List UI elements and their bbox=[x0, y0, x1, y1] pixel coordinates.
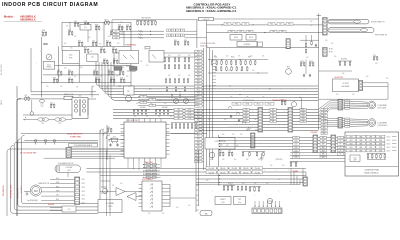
option box bbox=[333, 79, 359, 92]
wire transformer secondary right bbox=[87, 99, 89, 115]
svg-text:10K: 10K bbox=[188, 205, 190, 207]
svg-text:P32: P32 bbox=[197, 152, 200, 154]
wire vertical x58 bbox=[57, 46, 59, 82]
svg-text:CN-LED: CN-LED bbox=[208, 168, 215, 170]
resistor cluster under bundle bbox=[290, 163, 291, 166]
svg-text:NOISE DISPLAY PC: NOISE DISPLAY PC bbox=[67, 133, 83, 136]
svg-text:R95-R98: R95-R98 bbox=[162, 107, 168, 109]
svg-text:R04: R04 bbox=[118, 25, 121, 27]
svg-text:10K: 10K bbox=[74, 76, 76, 78]
svg-text:1/2W: 1/2W bbox=[42, 36, 46, 38]
svg-text:0.1μ: 0.1μ bbox=[238, 202, 241, 204]
svg-text:Z01: Z01 bbox=[74, 21, 77, 23]
serial driver triangle 2 bbox=[127, 193, 136, 201]
center resistor row upper bbox=[211, 61, 213, 64]
svg-text:+12V OUT: +12V OUT bbox=[117, 28, 124, 30]
wire y156 lower-left bbox=[44, 157, 115, 159]
row label boxes left bbox=[113, 30, 120, 32]
circle component below sub box bbox=[209, 152, 215, 158]
left bundle horizontal runs bbox=[10, 148, 146, 150]
svg-text:C: C bbox=[268, 89, 269, 91]
center spine vertical 4 bbox=[212, 50, 214, 160]
resistor pairs right of sub box bbox=[242, 153, 243, 156]
svg-text:IN2: IN2 bbox=[177, 112, 179, 114]
motor2 fan-in wires bbox=[343, 119, 368, 120]
svg-text:C: C bbox=[288, 170, 289, 172]
svg-text:P15: P15 bbox=[197, 96, 200, 98]
display bundle rows bbox=[219, 137, 345, 139]
svg-text:10K: 10K bbox=[270, 119, 272, 121]
svg-text:P-TH: P-TH bbox=[329, 52, 333, 54]
transistor circle bottom left bbox=[103, 189, 108, 194]
relay coil circle pre-band bbox=[291, 102, 296, 107]
SMPS enclosure bottom line 1 bbox=[31, 91, 96, 93]
svg-text:C53: C53 bbox=[244, 24, 247, 26]
svg-text:10K: 10K bbox=[214, 56, 216, 58]
svg-text:10K: 10K bbox=[306, 57, 308, 59]
svg-text:WHT: WHT bbox=[245, 109, 248, 111]
micom bottom pins bbox=[127, 158, 129, 162]
svg-text:C: C bbox=[116, 57, 117, 59]
micom left pins bbox=[121, 124, 125, 126]
svg-text:C11: C11 bbox=[91, 57, 94, 59]
junction dots on feeds bbox=[221, 24, 222, 25]
secondary output wire 4 bbox=[35, 119, 115, 154]
svg-text:C: C bbox=[118, 30, 119, 32]
svg-text:INDOOR PCB CIRCUIT DIAGRAM: INDOOR PCB CIRCUIT DIAGRAM bbox=[2, 2, 98, 8]
svg-text:R03: R03 bbox=[105, 19, 108, 21]
center field top wire bbox=[208, 59, 268, 61]
svg-text:CN-6: CN-6 bbox=[82, 199, 85, 201]
inline connector arrows bbox=[139, 30, 141, 32]
wire color labels col 1 bbox=[243, 108, 249, 110]
svg-text:P07: P07 bbox=[197, 70, 200, 72]
svg-text:C71: C71 bbox=[373, 55, 376, 57]
dark component A bbox=[115, 67, 123, 71]
svg-text:P19: P19 bbox=[197, 110, 200, 112]
svg-text:FM: FM bbox=[34, 189, 38, 193]
svg-text:10K: 10K bbox=[254, 119, 256, 121]
svg-text:10K: 10K bbox=[310, 21, 312, 23]
svg-text:GRN: GRN bbox=[359, 147, 362, 149]
svg-text:10K: 10K bbox=[122, 67, 124, 69]
svg-text:P08: P08 bbox=[197, 74, 200, 76]
resistor cluster mid right bbox=[339, 62, 340, 65]
terminal label grid bbox=[167, 29, 171, 32]
svg-text:RD-PWB: RD-PWB bbox=[48, 204, 54, 206]
bottom long row 2 bbox=[87, 171, 307, 173]
wire y47.5 horizontal bbox=[207, 47, 319, 49]
component boxes row 2 bbox=[228, 30, 235, 33]
wires fan connector to right bbox=[101, 180, 110, 182]
snubber box bbox=[87, 54, 98, 62]
svg-text:LED1: LED1 bbox=[349, 147, 353, 149]
svg-text:IC06: IC06 bbox=[222, 202, 225, 204]
motor wire rows bbox=[113, 108, 318, 110]
svg-text:R52: R52 bbox=[235, 24, 238, 26]
bottom long row 3 bbox=[100, 175, 306, 177]
driver IC02 box bbox=[142, 181, 162, 211]
svg-text:RED: RED bbox=[323, 127, 326, 129]
secondary output wire 3 bbox=[33, 120, 115, 153]
wire x306 vertical drop bbox=[305, 60, 307, 75]
svg-text:10K: 10K bbox=[146, 116, 148, 118]
svg-text:LED: LED bbox=[295, 144, 298, 146]
svg-text:WHT: WHT bbox=[245, 118, 248, 120]
crystal circle bottom bbox=[267, 198, 272, 203]
svg-text:C: C bbox=[146, 89, 147, 91]
svg-text:10K: 10K bbox=[210, 159, 212, 161]
svg-text:C: C bbox=[118, 195, 119, 197]
svg-text:C: C bbox=[268, 111, 269, 113]
svg-text:RY-B: RY-B bbox=[246, 104, 249, 106]
svg-text:CN-OPTION: CN-OPTION bbox=[334, 77, 344, 79]
svg-text:10K: 10K bbox=[126, 76, 128, 78]
svg-text:CN-PWR: CN-PWR bbox=[21, 186, 23, 193]
svg-text:10K: 10K bbox=[366, 76, 368, 78]
vertical drop from top wire bbox=[111, 20, 113, 31]
svg-text:ORN: ORN bbox=[56, 191, 59, 193]
svg-text:REMOTE: REMOTE bbox=[255, 130, 262, 132]
svg-text:C81: C81 bbox=[107, 127, 110, 129]
resistor row above wires bbox=[136, 20, 156, 22]
svg-text:C: C bbox=[266, 195, 267, 197]
svg-text:10K: 10K bbox=[188, 75, 190, 77]
relay RY02 box bbox=[246, 35, 256, 41]
svg-text:RED: RED bbox=[323, 133, 326, 135]
svg-text:M: M bbox=[371, 121, 374, 125]
svg-text:10K: 10K bbox=[230, 185, 232, 187]
micom right pins bbox=[166, 124, 170, 126]
band row resistor group 2 bbox=[155, 111, 157, 114]
svg-text:LOUVER: LOUVER bbox=[378, 105, 387, 107]
small box below red label bbox=[145, 46, 150, 49]
wire from box to right bus bbox=[214, 18, 319, 20]
line filter coil ellipses 2 bbox=[55, 118, 61, 121]
main bus nested bends bbox=[96, 62, 100, 86]
svg-text:C: C bbox=[208, 89, 209, 91]
svg-text:ORN: ORN bbox=[302, 109, 305, 111]
IC02 right pins bbox=[162, 184, 170, 186]
thermistor 1 internal wires bbox=[329, 20, 353, 22]
svg-text:P30: P30 bbox=[197, 145, 200, 147]
bottom-left box bbox=[98, 200, 122, 213]
motor1 fan-in wires bbox=[343, 101, 368, 102]
svg-text:R204: R204 bbox=[231, 57, 235, 59]
svg-text:C: C bbox=[102, 29, 103, 31]
svg-text:C: C bbox=[292, 89, 293, 91]
svg-text:10K: 10K bbox=[66, 26, 68, 28]
svg-text:R61: R61 bbox=[219, 151, 222, 153]
svg-text:CX1: CX1 bbox=[41, 104, 44, 106]
svg-text:IN3: IN3 bbox=[177, 115, 179, 117]
svg-text:10K: 10K bbox=[108, 36, 110, 38]
svg-text:10K: 10K bbox=[254, 183, 256, 185]
svg-text:10K: 10K bbox=[282, 165, 284, 167]
svg-text:C: C bbox=[220, 89, 221, 91]
wire from transformer to SMPS bbox=[91, 86, 93, 98]
svg-text:R91-R94: R91-R94 bbox=[140, 107, 146, 109]
svg-text:10K: 10K bbox=[242, 183, 244, 185]
svg-text:LED-P: LED-P bbox=[387, 136, 391, 138]
svg-text:10K: 10K bbox=[226, 56, 228, 58]
svg-text:P1: P1 bbox=[340, 154, 342, 156]
svg-text:C: C bbox=[384, 142, 385, 144]
svg-text:C: C bbox=[168, 111, 169, 113]
svg-text:CN: CN bbox=[142, 102, 144, 104]
svg-text:(OPTION): (OPTION) bbox=[276, 159, 283, 161]
capacitor pair relay area bbox=[230, 115, 232, 117]
svg-text:GRN: GRN bbox=[359, 136, 362, 138]
relay coil circle right of field bbox=[286, 69, 292, 75]
serial wires bbox=[100, 191, 116, 193]
fuse F01 bbox=[64, 96, 73, 99]
svg-text:C: C bbox=[348, 159, 349, 161]
display pcb resistor cluster bbox=[367, 155, 369, 158]
louver motor 2 circle bbox=[368, 119, 376, 127]
svg-text:C58: C58 bbox=[239, 31, 242, 33]
svg-text:C: C bbox=[354, 145, 355, 147]
svg-text:GRN: GRN bbox=[359, 143, 362, 145]
optocoupler PC01 box bbox=[119, 51, 139, 64]
svg-text:LED: LED bbox=[295, 150, 298, 152]
svg-text:C: C bbox=[228, 175, 229, 177]
svg-text:R20: R20 bbox=[68, 70, 71, 72]
svg-text:C: C bbox=[358, 162, 359, 164]
svg-text:10K: 10K bbox=[266, 183, 268, 185]
svg-text:IC01: IC01 bbox=[47, 64, 51, 66]
svg-text:P1: P1 bbox=[340, 150, 342, 152]
svg-text:R24: R24 bbox=[53, 77, 56, 79]
svg-text:CN: CN bbox=[142, 96, 144, 98]
svg-text:C: C bbox=[236, 125, 237, 127]
dark component B bbox=[130, 67, 138, 71]
svg-text:10K: 10K bbox=[250, 56, 252, 58]
svg-text:P33: P33 bbox=[197, 155, 200, 157]
svg-text:10K: 10K bbox=[70, 48, 72, 50]
svg-text:CN-LED: CN-LED bbox=[243, 168, 250, 170]
svg-text:WHT: WHT bbox=[322, 147, 325, 149]
svg-text:10K: 10K bbox=[228, 70, 230, 72]
svg-text:P06: P06 bbox=[197, 67, 200, 69]
svg-text:R10: R10 bbox=[78, 40, 81, 42]
bus junction dots bbox=[119, 85, 120, 86]
center spine vertical 5 bbox=[218, 135, 220, 185]
svg-text:10K: 10K bbox=[230, 97, 232, 99]
svg-text:ORN: ORN bbox=[302, 121, 305, 123]
svg-text:P17: P17 bbox=[197, 102, 200, 104]
resistor bank right of optos bbox=[164, 58, 166, 61]
svg-text:10K: 10K bbox=[136, 103, 138, 105]
vertical stub x301 bbox=[301, 98, 303, 109]
bottom resistor group B bbox=[237, 187, 239, 190]
bottom row junction dots bbox=[219, 168, 220, 169]
svg-text:P27: P27 bbox=[197, 136, 200, 138]
svg-text:CN2: CN2 bbox=[115, 34, 118, 36]
bottom wire y184 bbox=[196, 183, 300, 185]
svg-text:10K: 10K bbox=[158, 116, 160, 118]
svg-text:OUT3: OUT3 bbox=[188, 115, 192, 117]
wire divider vertical bbox=[305, 35, 307, 43]
bottom long row 1 bbox=[87, 168, 307, 170]
svg-text:C: C bbox=[156, 111, 157, 113]
junction circle J3 bbox=[53, 140, 55, 142]
ground symbol mid bbox=[261, 153, 263, 158]
wire y71 right bbox=[319, 70, 352, 72]
svg-text:TMR: TMR bbox=[379, 143, 382, 145]
svg-text:C16: C16 bbox=[103, 58, 106, 60]
display pcb led rows bbox=[347, 135, 356, 138]
serial driver triangle 1 bbox=[116, 188, 125, 196]
bottom long row 4 bbox=[196, 178, 306, 180]
svg-text:OPE: OPE bbox=[369, 136, 372, 138]
svg-text:10K: 10K bbox=[64, 43, 66, 45]
sub box display interface bbox=[205, 138, 235, 150]
svg-text:ORN: ORN bbox=[302, 112, 305, 114]
svg-text:CN-LED: CN-LED bbox=[231, 168, 238, 170]
svg-text:P34: P34 bbox=[197, 158, 200, 160]
band row label boxes col B bbox=[185, 108, 194, 110]
bottom extra wires under fan bbox=[50, 207, 75, 209]
svg-text:P31: P31 bbox=[197, 148, 200, 150]
ladder rows left of band bbox=[138, 96, 197, 98]
micom top pins bbox=[127, 119, 129, 123]
svg-text:10K: 10K bbox=[240, 119, 242, 121]
svg-text:C: C bbox=[144, 111, 145, 113]
svg-text:10K: 10K bbox=[58, 76, 60, 78]
svg-text:10K: 10K bbox=[178, 55, 180, 57]
svg-text:C: C bbox=[388, 157, 389, 159]
connector col motors mid 2 bbox=[288, 108, 293, 133]
svg-text:10K: 10K bbox=[106, 87, 108, 89]
display conn col 1 bbox=[313, 135, 318, 153]
svg-text:10K: 10K bbox=[258, 159, 260, 161]
svg-text:C: C bbox=[304, 89, 305, 91]
svg-text:CN-LED: CN-LED bbox=[208, 172, 215, 174]
svg-text:10K: 10K bbox=[246, 97, 248, 99]
svg-text:BLU: BLU bbox=[323, 115, 326, 117]
svg-text:OUT1: OUT1 bbox=[188, 109, 192, 111]
wires IC02 to spine bbox=[169, 185, 171, 207]
svg-text:LF2: LF2 bbox=[59, 123, 62, 125]
svg-text:C: C bbox=[104, 93, 105, 95]
resistor R35 pair bbox=[171, 95, 172, 98]
wire vertical at fuse branch bbox=[40, 37, 42, 98]
svg-text:R71-73: R71-73 bbox=[228, 183, 233, 185]
svg-text:WHT: WHT bbox=[322, 157, 325, 159]
svg-text:RESET: RESET bbox=[220, 199, 225, 201]
svg-text:BLU: BLU bbox=[323, 118, 326, 120]
svg-text:C60: C60 bbox=[272, 31, 275, 33]
svg-text:IC02: IC02 bbox=[69, 55, 73, 57]
svg-text:CN-1: CN-1 bbox=[82, 179, 85, 181]
svg-text:WHT: WHT bbox=[322, 154, 325, 156]
svg-text:C: C bbox=[354, 138, 355, 140]
svg-text:C: C bbox=[252, 170, 253, 172]
connector CN-FM bbox=[75, 177, 80, 205]
svg-text:CN-DISP: CN-DISP bbox=[311, 132, 318, 134]
svg-text:10K: 10K bbox=[170, 116, 172, 118]
center spine vertical 3 bbox=[209, 48, 211, 166]
svg-text:C: C bbox=[212, 191, 213, 193]
svg-text:10K: 10K bbox=[140, 61, 142, 63]
svg-text:C: C bbox=[236, 154, 237, 156]
svg-text:C: C bbox=[278, 191, 279, 193]
dots above connector bbox=[254, 206, 255, 207]
svg-text:LED1: LED1 bbox=[349, 143, 353, 145]
resistor bank lower second row bbox=[166, 88, 168, 91]
svg-text:10K: 10K bbox=[252, 70, 254, 72]
spine right pin stubs bbox=[213, 59, 217, 61]
svg-text:R31 R32 R33: R31 R32 R33 bbox=[141, 18, 150, 20]
svg-text:LED: LED bbox=[354, 158, 357, 160]
svg-text:GRN: GRN bbox=[359, 140, 362, 142]
svg-text:LOUVER: LOUVER bbox=[378, 122, 387, 124]
svg-text:P1: P1 bbox=[340, 137, 342, 139]
connector col before motor 2 bbox=[338, 118, 343, 129]
center field junction dots bbox=[221, 59, 222, 60]
svg-text:PC-POWER2: PC-POWER2 bbox=[127, 71, 136, 73]
svg-text:WHT: WHT bbox=[322, 144, 325, 146]
wires opto area bbox=[114, 52, 119, 54]
connector CN-TH2 bbox=[323, 48, 328, 57]
left wire bundle verticals bbox=[7, 149, 10, 216]
svg-text:C: C bbox=[66, 57, 67, 59]
svg-text:CN-2: CN-2 bbox=[82, 183, 85, 185]
wire color labels col 4 bbox=[321, 108, 327, 110]
svg-text:BLU: BLU bbox=[323, 121, 326, 123]
svg-text:C55: C55 bbox=[279, 24, 282, 26]
svg-text:10K: 10K bbox=[240, 70, 242, 72]
svg-text:10K: 10K bbox=[168, 75, 170, 77]
display pcb sub component bbox=[350, 155, 360, 162]
svg-text:C: C bbox=[48, 69, 49, 71]
svg-text:10K: 10K bbox=[120, 22, 122, 24]
wire right lower bbox=[319, 98, 388, 100]
vertical wire x196.9 bbox=[196, 20, 198, 48]
svg-text:P05: P05 bbox=[197, 64, 200, 66]
spine pin label ladder bbox=[195, 50, 203, 52]
svg-text:R12: R12 bbox=[84, 47, 87, 49]
vertical x198.6 bottom bbox=[198, 150, 200, 206]
crystal X01 bbox=[112, 138, 118, 142]
svg-text:OPE: OPE bbox=[369, 140, 372, 142]
svg-text:YEL: YEL bbox=[272, 121, 275, 123]
svg-text:(UP-DOWN): (UP-DOWN) bbox=[378, 107, 387, 109]
svg-text:P18: P18 bbox=[197, 106, 200, 108]
svg-text:10K: 10K bbox=[118, 86, 120, 88]
svg-text:(LEFT-RIGHT): (LEFT-RIGHT) bbox=[378, 125, 388, 127]
louver motor 1 circle bbox=[368, 101, 376, 109]
svg-text:C: C bbox=[364, 138, 365, 140]
svg-text:P28: P28 bbox=[197, 139, 200, 141]
svg-text:C: C bbox=[374, 142, 375, 144]
svg-text:C19: C19 bbox=[57, 70, 60, 72]
wire AC live bbox=[21, 98, 64, 100]
bottom box 2 bbox=[234, 197, 246, 205]
junction circle on neutral bbox=[30, 112, 34, 116]
pre-band component boxes row bbox=[232, 102, 241, 105]
svg-text:10K: 10K bbox=[90, 51, 92, 53]
svg-text:C26: C26 bbox=[95, 77, 98, 79]
svg-text:EARTH: EARTH bbox=[0, 100, 3, 105]
svg-text:R216: R216 bbox=[309, 61, 313, 63]
svg-text:0.1μ: 0.1μ bbox=[41, 106, 44, 108]
svg-text:P45: P45 bbox=[197, 210, 200, 212]
svg-text:10K: 10K bbox=[104, 52, 106, 54]
svg-text:10K: 10K bbox=[74, 36, 76, 38]
svg-text:LED1: LED1 bbox=[349, 140, 353, 142]
